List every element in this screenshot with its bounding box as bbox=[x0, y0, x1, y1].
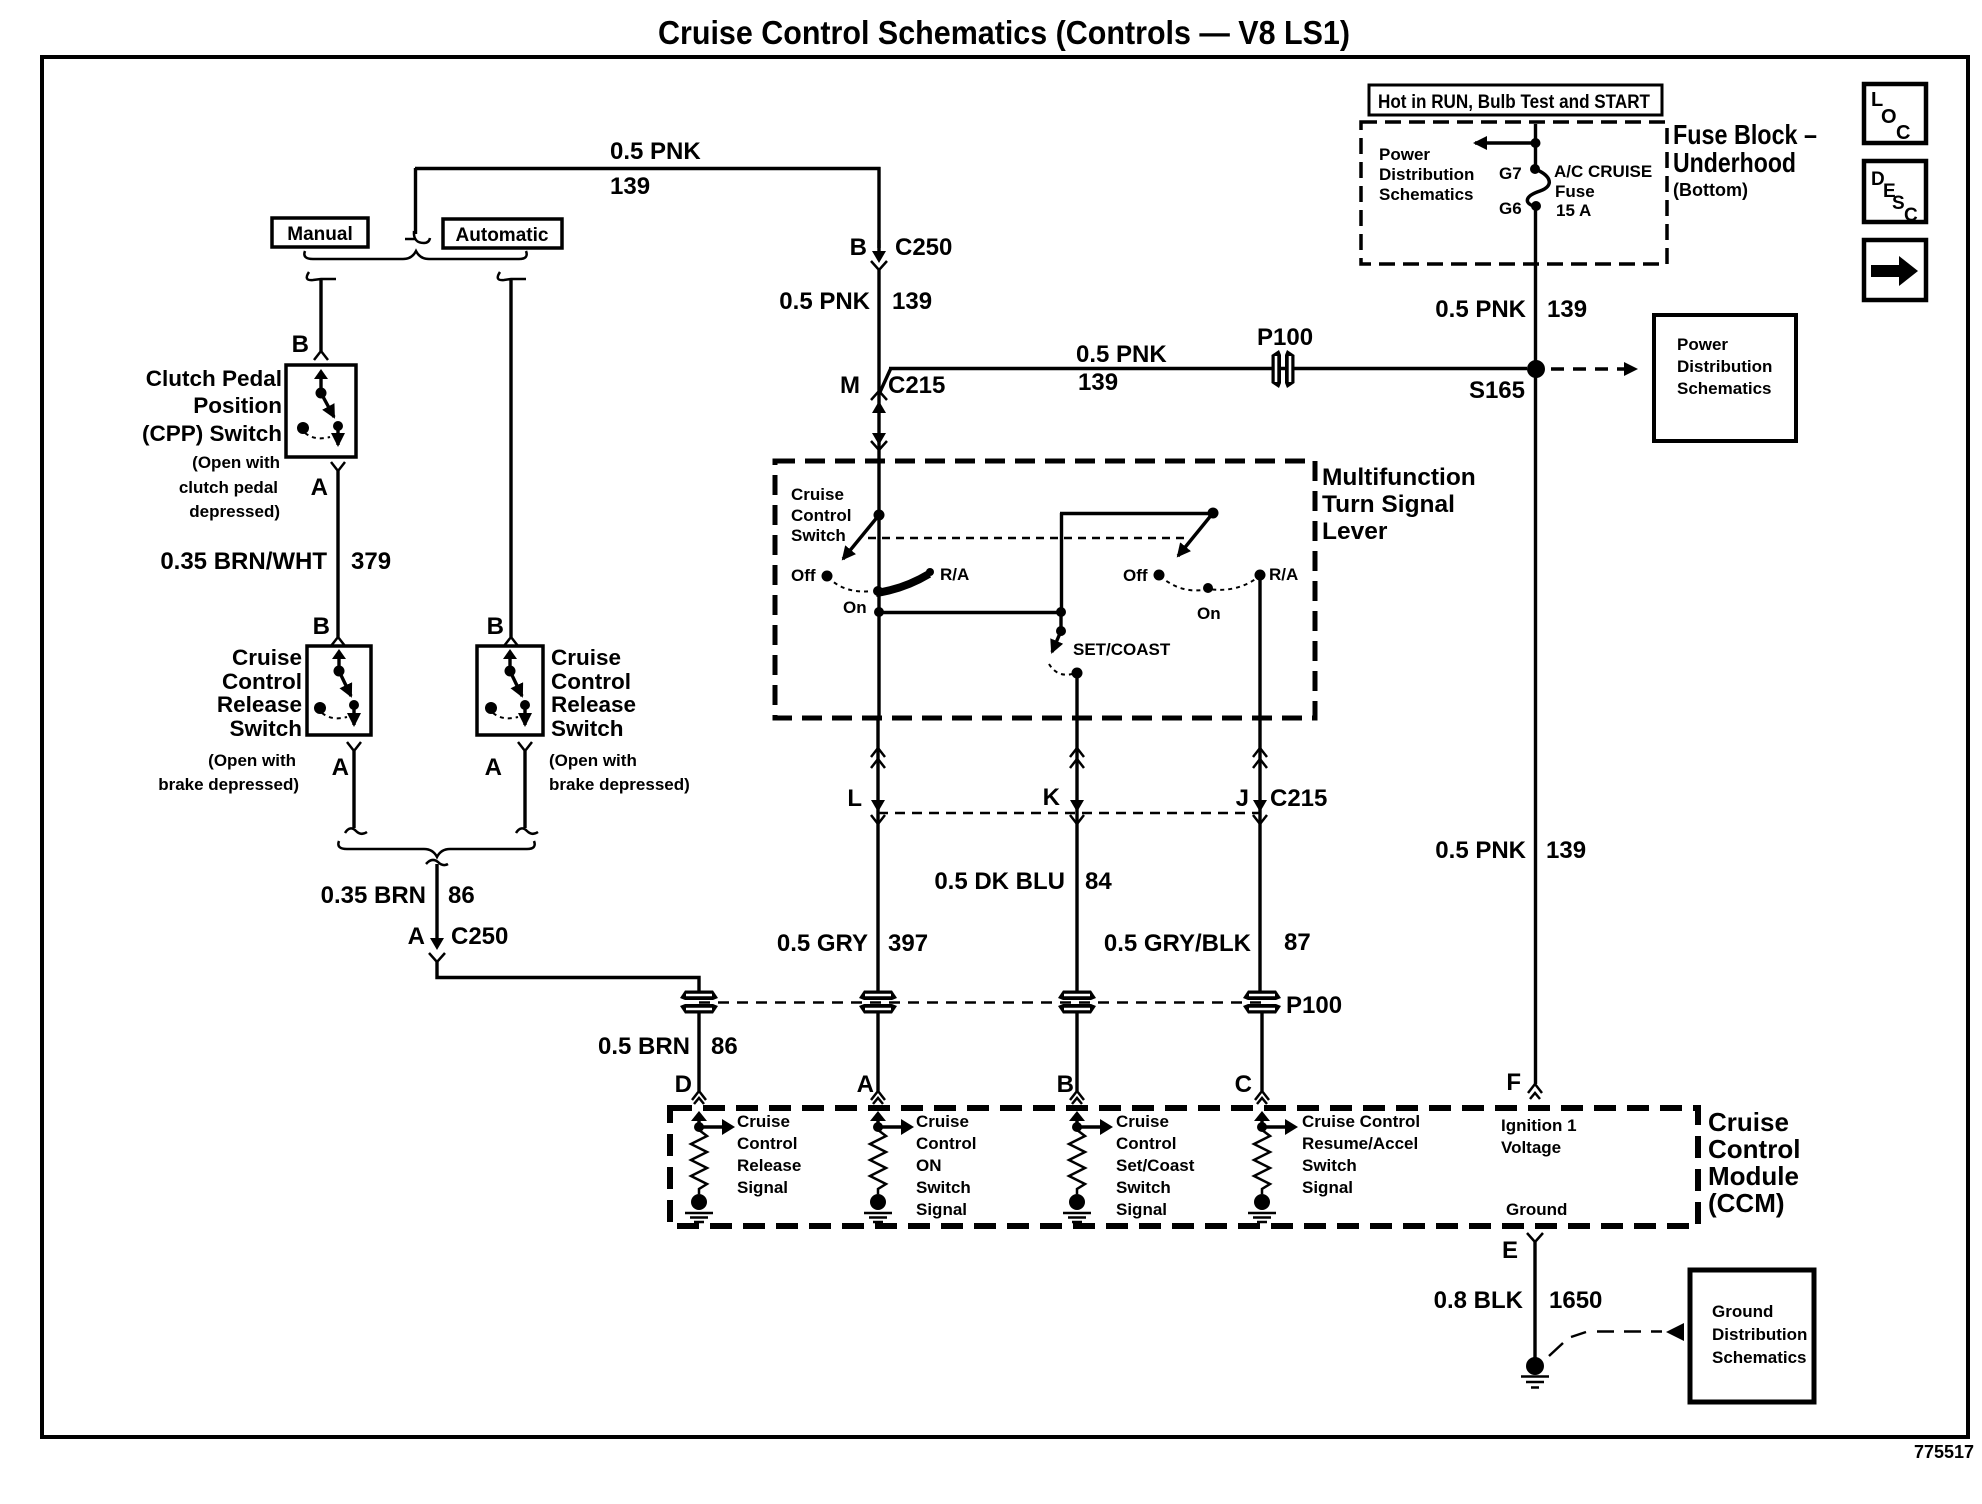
switch blade (set/coast) bbox=[1052, 631, 1061, 652]
pin E fork bbox=[1527, 1233, 1543, 1242]
svg-text:0.5 DK BLU: 0.5 DK BLU bbox=[934, 868, 1065, 895]
icon LOC bbox=[1864, 84, 1926, 144]
cruise control release switch box (automatic) bbox=[477, 646, 543, 735]
svg-text:depressed): depressed) bbox=[189, 502, 280, 521]
svg-text:0.5 GRY/BLK: 0.5 GRY/BLK bbox=[1104, 930, 1252, 957]
connector P100 half pair (wire C) bbox=[1243, 991, 1281, 1014]
svg-text:ON: ON bbox=[916, 1156, 942, 1175]
wire 0.5 PNK 139 horizontal to S165 bbox=[889, 367, 1527, 370]
wire On to set/coast branch bbox=[879, 611, 1061, 614]
svg-text:Underhood: Underhood bbox=[1673, 147, 1796, 178]
set/coast switch stub bbox=[1059, 612, 1062, 631]
svg-text:C250: C250 bbox=[451, 923, 508, 950]
wire 0.5 PNK 139 between C250 and C215 bbox=[877, 270, 880, 461]
svg-text:L: L bbox=[847, 785, 862, 812]
svg-text:(CPP) Switch: (CPP) Switch bbox=[142, 421, 282, 446]
splice brace top bbox=[304, 251, 526, 259]
pin F fork bbox=[1528, 1084, 1542, 1099]
dashed throw arc (set/coast) bbox=[1049, 664, 1076, 675]
connector P100 half pair (wire B) bbox=[1058, 991, 1096, 1014]
svg-text:87: 87 bbox=[1284, 929, 1311, 956]
connector P100 half pair (wire D) bbox=[680, 991, 718, 1014]
svg-text:Turn Signal: Turn Signal bbox=[1322, 491, 1455, 518]
svg-text:Control: Control bbox=[791, 506, 851, 525]
svg-text:Ground: Ground bbox=[1712, 1302, 1773, 1321]
svg-text:Fuse Block –: Fuse Block – bbox=[1673, 119, 1817, 150]
splice hook below brace bbox=[426, 860, 448, 865]
svg-text:Switch: Switch bbox=[791, 526, 846, 545]
svg-text:0.5 PNK: 0.5 PNK bbox=[779, 288, 870, 315]
splice hook manual branch bbox=[307, 272, 336, 280]
connector C250 pin B bbox=[850, 234, 953, 270]
clutch pedal position switch box bbox=[286, 365, 356, 457]
svg-text:Cruise: Cruise bbox=[916, 1112, 969, 1131]
icon right-arrow bbox=[1864, 240, 1926, 300]
svg-text:C215: C215 bbox=[1270, 785, 1327, 812]
svg-text:brake depressed): brake depressed) bbox=[158, 775, 299, 794]
svg-text:G7: G7 bbox=[1499, 164, 1522, 183]
svg-text:Power: Power bbox=[1379, 145, 1430, 164]
release switch (automatic) pin A fork bbox=[518, 742, 532, 751]
svg-text:0.5 BRN: 0.5 BRN bbox=[598, 1033, 690, 1060]
ground distribution schematics box bbox=[1690, 1270, 1814, 1402]
label box Manual bbox=[272, 218, 368, 247]
contact R/A (right) bbox=[1255, 570, 1266, 581]
svg-text:Switch: Switch bbox=[229, 716, 302, 741]
svg-text:B: B bbox=[313, 613, 330, 640]
wire from automatic release switch bbox=[523, 751, 526, 828]
contact On bbox=[873, 586, 883, 596]
connector chevrons wire L bbox=[871, 748, 885, 768]
svg-text:Control: Control bbox=[916, 1134, 976, 1153]
svg-text:15 A: 15 A bbox=[1556, 201, 1591, 220]
CPP switch symbol bbox=[297, 369, 343, 445]
svg-text:A: A bbox=[857, 1071, 874, 1098]
pin A fork bbox=[871, 1091, 885, 1104]
svg-text:SET/COAST: SET/COAST bbox=[1073, 640, 1171, 659]
contact On (right) bbox=[1203, 583, 1213, 593]
wire 0.5 PNK 139 fuse to CCM pin F bbox=[1534, 206, 1537, 1084]
contact Off (right) bbox=[1154, 570, 1165, 581]
dashed throw arc bbox=[828, 577, 872, 591]
momentary R/A thick arc bbox=[876, 574, 929, 593]
wire J from R/A contact bbox=[1258, 575, 1261, 718]
svg-text:A: A bbox=[485, 754, 502, 781]
svg-text:C: C bbox=[1896, 122, 1910, 144]
release switch symbol (automatic) bbox=[485, 649, 530, 725]
svg-text:397: 397 bbox=[888, 930, 928, 957]
svg-text:Control: Control bbox=[1708, 1134, 1800, 1164]
contact Off bbox=[822, 571, 833, 582]
wire from C250 to P100 bbox=[437, 962, 699, 992]
svg-text:Switch: Switch bbox=[916, 1178, 971, 1197]
wire 0.35 BRN/WHT 379 bbox=[336, 471, 339, 637]
pin C fork bbox=[1255, 1091, 1269, 1104]
wire manual branch to CPP switch bbox=[319, 279, 322, 351]
svg-text:139: 139 bbox=[1547, 296, 1587, 323]
svg-text:Schematics: Schematics bbox=[1677, 379, 1772, 398]
svg-text:379: 379 bbox=[351, 548, 391, 575]
multifunction turn signal lever dashed box bbox=[775, 461, 1315, 718]
svg-text:1650: 1650 bbox=[1549, 1287, 1602, 1314]
svg-text:(Open with: (Open with bbox=[192, 453, 280, 472]
svg-text:0.5 GRY: 0.5 GRY bbox=[777, 930, 868, 957]
connector P100 (horizontal wire) bbox=[1272, 350, 1295, 388]
wire 0.35 BRN 86 bbox=[435, 864, 438, 940]
dashed reference arrow to ground distribution schematics bbox=[1549, 1332, 1662, 1357]
CCM input cell: cruise control release signal bbox=[685, 1111, 801, 1222]
svg-text:0.35 BRN/WHT: 0.35 BRN/WHT bbox=[160, 548, 327, 575]
svg-text:Distribution: Distribution bbox=[1379, 165, 1474, 184]
svg-text:Cruise Control Schematics (Con: Cruise Control Schematics (Controls — V8… bbox=[658, 14, 1350, 51]
wire B below P100 bbox=[1075, 1013, 1078, 1091]
connector chevrons wire K bbox=[1070, 748, 1084, 768]
pin G6 bbox=[1531, 201, 1541, 211]
svg-text:775517: 775517 bbox=[1914, 1442, 1974, 1462]
svg-text:Control: Control bbox=[551, 669, 631, 694]
svg-text:On: On bbox=[1197, 604, 1221, 623]
icon DESC bbox=[1864, 161, 1926, 226]
CCM input cell: cruise control resume/accel switch signal bbox=[1248, 1111, 1420, 1222]
splice hook automatic branch bbox=[498, 272, 526, 280]
svg-text:Ground: Ground bbox=[1506, 1200, 1567, 1219]
svg-text:0.8 BLK: 0.8 BLK bbox=[1434, 1287, 1524, 1314]
svg-text:A: A bbox=[408, 923, 425, 950]
svg-text:0.5 PNK: 0.5 PNK bbox=[1435, 296, 1526, 323]
svg-text:Release: Release bbox=[737, 1156, 801, 1175]
svg-text:Cruise: Cruise bbox=[1708, 1107, 1789, 1137]
svg-text:Voltage: Voltage bbox=[1501, 1138, 1561, 1157]
svg-text:Signal: Signal bbox=[737, 1178, 788, 1197]
CCM input cell: cruise control set/coast switch signal bbox=[1063, 1111, 1195, 1222]
svg-text:Release: Release bbox=[217, 692, 302, 717]
CPP pin A fork bbox=[331, 462, 345, 471]
svg-text:Control: Control bbox=[1116, 1134, 1176, 1153]
svg-text:Fuse: Fuse bbox=[1555, 182, 1595, 201]
connector P100 half pair (wire A) bbox=[859, 991, 897, 1014]
svg-text:(Open with: (Open with bbox=[208, 751, 296, 770]
svg-text:(Open with: (Open with bbox=[549, 751, 637, 770]
contact SET/COAST bbox=[1072, 668, 1083, 679]
svg-text:Switch: Switch bbox=[1302, 1156, 1357, 1175]
release switch (manual) pin A fork bbox=[347, 742, 361, 751]
wire from hot feed into fuse bbox=[1534, 124, 1537, 166]
svg-text:Multifunction: Multifunction bbox=[1322, 464, 1476, 491]
connector C215 interface dashed line bbox=[878, 812, 1260, 815]
wire automatic branch bbox=[509, 279, 512, 637]
svg-text:B: B bbox=[1057, 1071, 1074, 1098]
svg-text:C: C bbox=[1235, 1071, 1252, 1098]
node: On junction bbox=[874, 607, 884, 617]
fuse A/C CRUISE 15A bbox=[1527, 169, 1549, 207]
splice hook (manual) bbox=[345, 828, 367, 833]
svg-text:Set/Coast: Set/Coast bbox=[1116, 1156, 1195, 1175]
svg-text:Manual: Manual bbox=[287, 224, 352, 245]
svg-text:Cruise: Cruise bbox=[737, 1112, 790, 1131]
svg-text:E: E bbox=[1502, 1237, 1518, 1264]
connector chevrons wire J bbox=[1253, 748, 1267, 768]
dashed reference arrow to power distribution schematics bbox=[1551, 367, 1636, 370]
svg-text:Off: Off bbox=[1123, 566, 1148, 585]
wire arrow to power distribution bbox=[1475, 141, 1535, 144]
svg-text:C250: C250 bbox=[895, 234, 952, 261]
svg-text:(Bottom): (Bottom) bbox=[1673, 180, 1748, 200]
svg-text:K: K bbox=[1043, 784, 1061, 811]
svg-text:0.5 PNK: 0.5 PNK bbox=[1435, 837, 1526, 864]
svg-text:Release: Release bbox=[551, 692, 636, 717]
CCM input cell: cruise control ON switch signal bbox=[864, 1111, 976, 1222]
svg-text:C215: C215 bbox=[888, 372, 945, 399]
svg-text:D: D bbox=[675, 1071, 692, 1098]
svg-text:Module: Module bbox=[1708, 1161, 1799, 1191]
svg-text:139: 139 bbox=[1078, 369, 1118, 396]
svg-text:(CCM): (CCM) bbox=[1708, 1188, 1785, 1218]
svg-text:Lever: Lever bbox=[1322, 518, 1388, 545]
svg-text:Signal: Signal bbox=[1302, 1178, 1353, 1197]
svg-text:On: On bbox=[843, 598, 867, 617]
release switch (manual) pin B fork bbox=[331, 637, 345, 646]
svg-text:O: O bbox=[1881, 106, 1897, 128]
splice brace bottom bbox=[338, 841, 534, 857]
svg-text:Power: Power bbox=[1677, 335, 1728, 354]
svg-text:Cruise Control: Cruise Control bbox=[1302, 1112, 1420, 1131]
pin G7 bbox=[1530, 164, 1540, 174]
label box Automatic bbox=[443, 219, 562, 248]
cruise control module (CCM) dashed box bbox=[670, 1108, 1698, 1226]
svg-text:Switch: Switch bbox=[1116, 1178, 1171, 1197]
svg-text:84: 84 bbox=[1085, 868, 1112, 895]
svg-text:S: S bbox=[1892, 193, 1905, 214]
svg-text:G6: G6 bbox=[1499, 199, 1522, 218]
svg-text:R/A: R/A bbox=[940, 565, 969, 584]
svg-text:B: B bbox=[850, 234, 867, 261]
svg-text:Control: Control bbox=[222, 669, 302, 694]
svg-text:Hot in RUN, Bulb Test and STAR: Hot in RUN, Bulb Test and START bbox=[1378, 92, 1650, 113]
release switch (automatic) pin B fork bbox=[504, 637, 518, 646]
ground G bbox=[1521, 1357, 1549, 1388]
svg-text:Switch: Switch bbox=[551, 716, 624, 741]
svg-text:P100: P100 bbox=[1257, 324, 1313, 351]
svg-text:Clutch Pedal: Clutch Pedal bbox=[146, 366, 282, 391]
svg-text:Resume/Accel: Resume/Accel bbox=[1302, 1134, 1418, 1153]
svg-text:Position: Position bbox=[193, 393, 282, 418]
svg-text:86: 86 bbox=[711, 1033, 738, 1060]
dashed throw arc (right) bbox=[1160, 576, 1257, 590]
svg-text:Schematics: Schematics bbox=[1379, 185, 1474, 204]
fuse block dashed box bbox=[1361, 122, 1667, 264]
wire 0.8 BLK 1650 bbox=[1533, 1242, 1536, 1358]
wire L to connector C215 bbox=[876, 718, 879, 992]
svg-text:Cruise: Cruise bbox=[232, 645, 302, 670]
CPP pin B fork bbox=[314, 351, 328, 360]
svg-text:Distribution: Distribution bbox=[1712, 1325, 1807, 1344]
wire 0.5 PNK 139 top run bbox=[415, 167, 881, 170]
svg-text:F: F bbox=[1506, 1069, 1521, 1096]
release switch symbol (manual) bbox=[314, 649, 359, 725]
pin D fork bbox=[692, 1091, 706, 1104]
svg-text:A: A bbox=[311, 474, 328, 501]
connector C215 pin M bbox=[840, 372, 945, 450]
svg-text:brake depressed): brake depressed) bbox=[549, 775, 690, 794]
wire riser to R/A switch bbox=[1060, 513, 1063, 612]
svg-text:Signal: Signal bbox=[916, 1200, 967, 1219]
wire branch diagonal at C215 M bbox=[880, 368, 891, 392]
wire 0.5 BRN 86 below P100 bbox=[697, 1013, 700, 1091]
label box: Hot in RUN, Bulb Test and START bbox=[1369, 85, 1662, 115]
wire J to connector C215 bbox=[1258, 718, 1261, 992]
svg-text:R/A: R/A bbox=[1269, 565, 1298, 584]
dashed guide line bbox=[868, 537, 1185, 540]
svg-text:Cruise: Cruise bbox=[791, 485, 844, 504]
svg-text:Off: Off bbox=[791, 566, 816, 585]
svg-text:Cruise: Cruise bbox=[551, 645, 621, 670]
svg-text:0.35 BRN: 0.35 BRN bbox=[321, 882, 426, 909]
svg-text:Ignition 1: Ignition 1 bbox=[1501, 1116, 1577, 1135]
svg-text:139: 139 bbox=[892, 288, 932, 315]
switch blade (cruise control switch) bbox=[843, 515, 879, 559]
switch blade (resume/accel switch) bbox=[1208, 508, 1219, 519]
pin B fork bbox=[1070, 1091, 1084, 1104]
svg-text:Distribution: Distribution bbox=[1677, 357, 1772, 376]
wire drop to splice brace bbox=[414, 168, 417, 234]
svg-text:86: 86 bbox=[448, 882, 475, 909]
wire cruise on/off switch vertical bbox=[877, 461, 880, 718]
svg-text:0.5 PNK: 0.5 PNK bbox=[610, 138, 701, 165]
splice S: hook bbox=[405, 231, 430, 243]
wire A below P100 bbox=[876, 1013, 879, 1091]
svg-text:Automatic: Automatic bbox=[456, 225, 549, 246]
svg-text:A/C CRUISE: A/C CRUISE bbox=[1554, 162, 1652, 181]
svg-text:P100: P100 bbox=[1286, 992, 1342, 1019]
power distribution schematics box bbox=[1654, 315, 1796, 441]
svg-text:clutch pedal: clutch pedal bbox=[179, 478, 278, 497]
svg-text:C: C bbox=[1904, 205, 1918, 226]
node S165 bbox=[1527, 360, 1545, 378]
svg-text:A: A bbox=[332, 754, 349, 781]
wire K to connector C215 bbox=[1075, 718, 1078, 992]
cruise control release switch box (manual) bbox=[307, 646, 371, 735]
connector C250 pin A bbox=[408, 923, 509, 962]
svg-text:Schematics: Schematics bbox=[1712, 1348, 1807, 1367]
wire C below P100 bbox=[1260, 1013, 1263, 1091]
svg-text:139: 139 bbox=[610, 173, 650, 200]
svg-text:139: 139 bbox=[1546, 837, 1586, 864]
svg-text:0.5 PNK: 0.5 PNK bbox=[1076, 341, 1167, 368]
svg-text:Signal: Signal bbox=[1116, 1200, 1167, 1219]
svg-text:Cruise: Cruise bbox=[1116, 1112, 1169, 1131]
svg-text:S165: S165 bbox=[1469, 377, 1525, 404]
svg-text:Control: Control bbox=[737, 1134, 797, 1153]
wire from manual release switch bbox=[352, 751, 355, 828]
svg-text:M: M bbox=[840, 372, 860, 399]
wire K from set/coast contact bbox=[1075, 673, 1078, 718]
svg-text:J: J bbox=[1236, 785, 1249, 812]
connector P100 dashed interface line bbox=[699, 1001, 1262, 1004]
svg-text:B: B bbox=[487, 613, 504, 640]
splice hook (automatic) bbox=[516, 828, 538, 833]
node: feed junction bbox=[1531, 138, 1541, 148]
svg-text:B: B bbox=[292, 331, 309, 358]
